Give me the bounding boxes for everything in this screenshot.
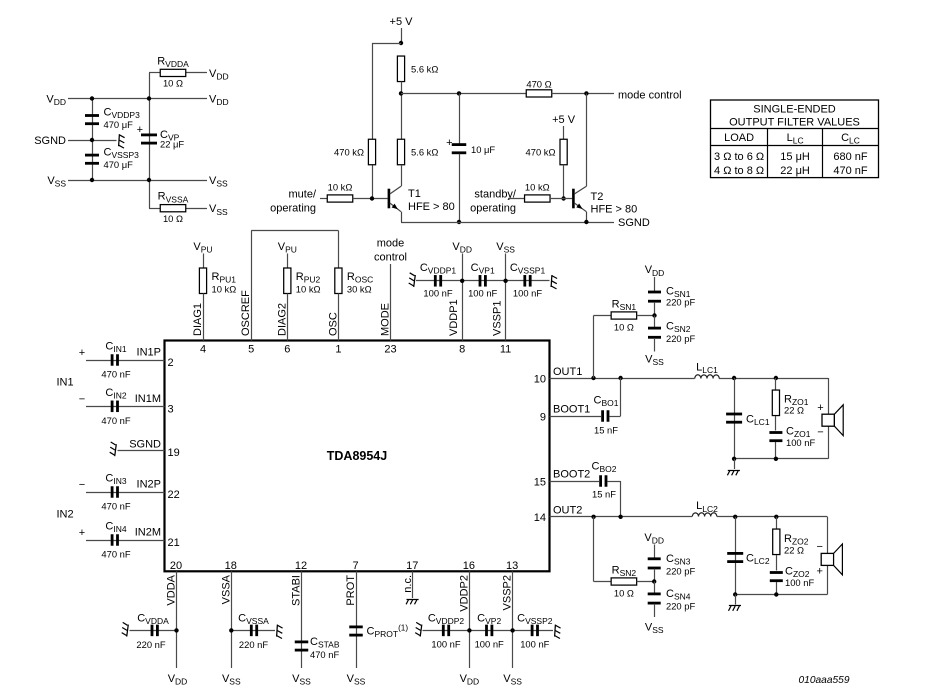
svg-text:2: 2 [168,357,174,369]
svg-text:14: 14 [534,512,546,524]
svg-text:220 nF: 220 nF [239,639,268,650]
svg-text:10 Ω: 10 Ω [163,213,183,224]
svg-text:220 nF: 220 nF [136,639,165,650]
svg-text:9: 9 [540,411,546,423]
svg-text:mode control: mode control [618,90,682,102]
svg-text:5.6 kΩ: 5.6 kΩ [411,64,438,75]
svg-text:MODE: MODE [380,303,392,336]
svg-text:IN2: IN2 [56,509,73,521]
svg-text:470 nF: 470 nF [101,549,130,560]
svg-text:control: control [374,252,407,264]
svg-text:22 μF: 22 μF [160,139,184,150]
svg-text:16: 16 [463,560,475,572]
svg-text:OUT1: OUT1 [553,366,582,378]
svg-text:HFE > 80: HFE > 80 [408,201,455,213]
svg-text:21: 21 [168,537,180,549]
svg-text:10 Ω: 10 Ω [614,588,634,599]
svg-text:4 Ω to 8 Ω: 4 Ω to 8 Ω [714,165,764,177]
svg-text:15 nF: 15 nF [592,489,616,500]
svg-text:11: 11 [500,343,511,355]
svg-text:SGND: SGND [618,217,650,229]
svg-text:operating: operating [470,203,516,215]
svg-text:STABI: STABI [291,575,303,606]
svg-text:100 nF: 100 nF [785,577,814,588]
svg-text:10 kΩ: 10 kΩ [212,284,237,295]
svg-text:220 pF: 220 pF [666,333,695,344]
svg-text:010aaa559: 010aaa559 [799,675,850,686]
svg-text:100 nF: 100 nF [431,639,460,650]
svg-text:5.6 kΩ: 5.6 kΩ [411,147,438,158]
svg-text:VDDA: VDDA [166,574,178,605]
svg-text:OUT2: OUT2 [553,505,582,517]
svg-text:mute/: mute/ [288,189,316,201]
svg-text:IN1: IN1 [56,377,73,389]
svg-text:1: 1 [335,343,341,355]
svg-text:470 μF: 470 μF [104,119,134,130]
svg-text:10 kΩ: 10 kΩ [525,182,550,193]
svg-text:SGND: SGND [34,135,66,147]
svg-text:15 nF: 15 nF [594,425,618,436]
svg-text:10 μF: 10 μF [471,144,495,155]
svg-text:VDDP2: VDDP2 [458,575,470,612]
svg-text:3 Ω to 6 Ω: 3 Ω to 6 Ω [714,151,764,163]
svg-text:IN1P: IN1P [137,347,161,359]
svg-text:IN2M: IN2M [135,527,161,539]
svg-text:15: 15 [534,476,546,488]
svg-text:IN2P: IN2P [137,479,161,491]
svg-text:10 kΩ: 10 kΩ [328,182,353,193]
svg-text:SGND: SGND [129,439,161,451]
svg-text:17: 17 [406,560,418,572]
svg-text:DIAG2: DIAG2 [276,303,288,336]
svg-text:100 nF: 100 nF [513,288,542,299]
svg-text:10 kΩ: 10 kΩ [296,284,321,295]
svg-text:+: + [79,527,85,539]
svg-text:VSSP1: VSSP1 [492,301,504,336]
svg-text:20: 20 [170,560,182,572]
svg-text:12: 12 [295,560,307,572]
svg-text:TDA8954J: TDA8954J [327,449,387,463]
svg-text:OUTPUT FILTER VALUES: OUTPUT FILTER VALUES [729,117,860,129]
svg-text:15 μH: 15 μH [780,151,810,163]
svg-text:T2: T2 [591,191,604,203]
svg-text:BOOT1: BOOT1 [553,404,590,416]
svg-text:220 pF: 220 pF [666,601,695,612]
svg-text:22 Ω: 22 Ω [784,405,804,416]
svg-text:470 kΩ: 470 kΩ [526,147,556,158]
svg-text:DIAG1: DIAG1 [192,303,204,336]
svg-text:30 kΩ: 30 kΩ [347,284,372,295]
svg-text:SINGLE-ENDED: SINGLE-ENDED [753,104,836,116]
svg-text:19: 19 [168,447,180,459]
svg-text:100 nF: 100 nF [468,288,497,299]
svg-text:7: 7 [352,560,358,572]
svg-text:OSCREF: OSCREF [240,290,252,336]
svg-text:+: + [446,137,452,149]
svg-text:4: 4 [200,343,206,355]
svg-text:mode: mode [377,238,405,250]
svg-text:100 nF: 100 nF [475,639,504,650]
svg-text:220 pF: 220 pF [666,297,695,308]
svg-text:13: 13 [506,560,518,572]
svg-text:PROT: PROT [345,575,357,606]
svg-text:T1: T1 [408,188,421,200]
svg-text:22 Ω: 22 Ω [784,545,804,556]
svg-text:470 nF: 470 nF [101,415,130,426]
svg-text:100 nF: 100 nF [786,437,815,448]
svg-text:+: + [816,566,822,578]
svg-text:−: − [79,479,85,491]
svg-text:VSSP2: VSSP2 [502,575,514,610]
svg-text:−: − [816,541,822,553]
svg-text:VDDP1: VDDP1 [448,299,460,336]
svg-text:+5 V: +5 V [390,16,414,28]
svg-text:470 nF: 470 nF [101,369,130,380]
svg-text:5: 5 [248,343,254,355]
svg-text:operating: operating [270,203,316,215]
svg-text:470 nF: 470 nF [101,501,130,512]
svg-text:IN1M: IN1M [135,393,161,405]
svg-text:22 μH: 22 μH [780,165,810,177]
svg-text:220 pF: 220 pF [666,566,695,577]
svg-text:10 Ω: 10 Ω [163,78,183,89]
svg-text:HFE > 80: HFE > 80 [591,204,638,216]
svg-text:470 nF: 470 nF [833,165,868,177]
svg-text:10: 10 [534,373,546,385]
svg-text:+: + [79,347,85,359]
svg-text:−: − [817,427,823,439]
svg-text:18: 18 [225,560,237,572]
svg-text:470 Ω: 470 Ω [526,79,551,90]
svg-text:8: 8 [459,343,465,355]
svg-text:470 kΩ: 470 kΩ [334,147,364,158]
svg-text:3: 3 [168,403,174,415]
svg-text:100 nF: 100 nF [423,288,452,299]
svg-text:470 nF: 470 nF [310,649,339,660]
svg-text:+: + [817,402,823,414]
svg-text:BOOT2: BOOT2 [553,469,590,481]
svg-text:470 μF: 470 μF [104,159,134,170]
svg-text:10 Ω: 10 Ω [614,322,634,333]
svg-text:+: + [137,124,143,136]
svg-text:+5 V: +5 V [552,114,576,126]
svg-text:680 nF: 680 nF [833,151,868,163]
svg-text:23: 23 [384,343,396,355]
svg-text:LOAD: LOAD [724,132,754,144]
svg-text:OSC: OSC [327,312,339,336]
svg-text:22: 22 [168,489,180,501]
svg-text:100 nF: 100 nF [520,639,549,650]
svg-text:VSSA: VSSA [220,574,232,604]
svg-text:6: 6 [284,343,290,355]
svg-text:−: − [79,393,85,405]
